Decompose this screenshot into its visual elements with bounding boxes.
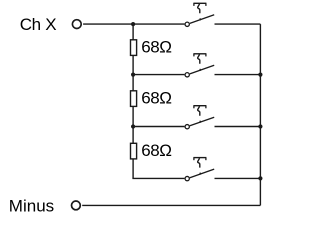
junction right bus row 2 (258, 73, 262, 77)
terminal Minus (72, 201, 81, 210)
switch S3 (185, 106, 214, 129)
svg-text:Minus: Minus (9, 197, 54, 216)
wire node A to switch S1 (133, 23, 184, 25)
junction right bus row 4 (258, 176, 262, 180)
wire switch S3 to right bus (215, 126, 261, 128)
wire left bus vertical (node A down to row 4 corner) (132, 24, 134, 178)
svg-text:68Ω: 68Ω (141, 141, 171, 160)
switch S4 (185, 158, 214, 181)
resistor 68Ω (middle) (131, 91, 137, 107)
wire row 4 corner to switch S4 (132, 177, 184, 179)
terminal Ch X (72, 20, 81, 29)
wire right bus vertical (259, 24, 261, 205)
wire node C to switch S3 (133, 126, 184, 128)
svg-text:Ch X: Ch X (20, 15, 57, 34)
resistor 68Ω (top) (131, 40, 137, 56)
wire node B to switch S2 (133, 74, 184, 76)
junction node B (131, 73, 135, 77)
switch S2 (185, 54, 214, 77)
resistor 68Ω (bottom) (131, 143, 137, 159)
wire Minus terminal to right bus (82, 204, 260, 206)
wire switch S1 to right bus (215, 23, 261, 25)
wire switch S4 to right bus (215, 177, 261, 179)
junction node C (131, 124, 135, 128)
svg-text:68Ω: 68Ω (141, 89, 171, 108)
wire Ch X terminal to node A (83, 23, 133, 25)
switch S1 (185, 3, 214, 26)
junction node A (131, 22, 135, 26)
junction right bus row 3 (258, 124, 262, 128)
wire switch S2 to right bus (215, 74, 261, 76)
svg-text:68Ω: 68Ω (141, 38, 171, 57)
